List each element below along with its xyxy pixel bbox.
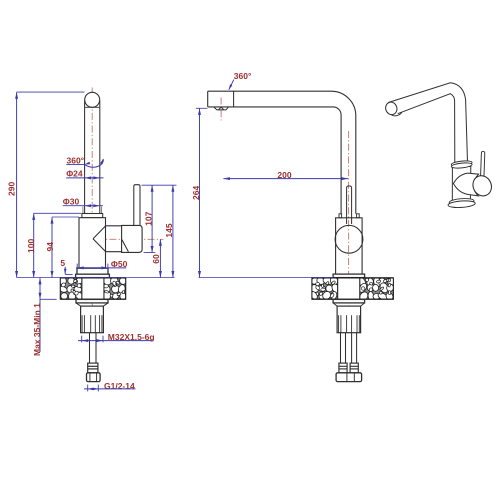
front view: spout top circle (85, 92, 100, 107)
svg-text:60: 60 (151, 254, 161, 264)
front view: handle cylinder silhouette line (122, 240, 128, 252)
side view: washer (333, 299, 365, 303)
3d view: outlet cap (384, 101, 399, 117)
dim Max 35-Min 1 (39, 278, 41, 352)
svg-text:145: 145 (164, 223, 174, 237)
front view: countertop surface lines (60, 277, 125, 279)
front view: riser pipe (84, 101, 86, 214)
front view: handle stick (134, 185, 140, 226)
3d view: boss cap (470, 173, 495, 199)
side view: spout tube outline (208, 91, 356, 214)
side view: collar tabs (339, 214, 342, 218)
side view: handle boss circle (335, 225, 363, 253)
svg-text:Max 35-Min 1: Max 35-Min 1 (32, 303, 42, 356)
front view: body (79, 218, 106, 268)
side view: hex nuts (336, 373, 362, 382)
front view: mounting nut (81, 306, 104, 333)
side view: tip separator (233, 91, 235, 107)
front view: base flange (77, 268, 108, 274)
side view: body (336, 218, 363, 274)
3d view: cone leaf (453, 173, 478, 196)
side view: inner stem (347, 186, 352, 224)
3d view: collar ring (451, 160, 472, 167)
svg-text:94: 94 (45, 242, 55, 252)
dim 145 (172, 185, 174, 277)
front view: hex nut G1/2 (87, 373, 101, 382)
dim 264 (199, 108, 201, 277)
front view: phi30 section edges (82, 207, 84, 214)
dim 60 (159, 239, 161, 277)
front view: collar (82, 214, 103, 218)
svg-text:Φ24: Φ24 (66, 169, 83, 179)
dim 290 (16, 92, 18, 277)
front view: hose crimp sleeve (88, 363, 98, 373)
svg-text:100: 100 (26, 239, 36, 253)
svg-text:200: 200 (277, 170, 291, 180)
side view: mounting nut (337, 306, 361, 333)
front view: neck lines (106, 225, 122, 227)
svg-text:360°: 360° (67, 156, 85, 166)
front view: shank through counter (82, 278, 104, 299)
svg-text:107: 107 (144, 211, 154, 225)
front view: handle cylinder (122, 225, 143, 252)
side view: center line (348, 131, 350, 309)
3d view: handle rod (481, 151, 485, 177)
3d view: body cylinder (452, 167, 471, 201)
svg-text:290: 290 (6, 182, 16, 196)
svg-text:360°: 360° (234, 71, 252, 81)
front view: vertical center line (91, 88, 93, 310)
side view: base flange (333, 274, 365, 278)
front view: supply tube (89, 333, 91, 363)
side view: countertop lines (312, 277, 394, 279)
front view: nut knurl ridges (81, 315, 83, 333)
baseline extension front (17, 277, 175, 279)
svg-text:264: 264 (191, 186, 201, 200)
svg-text:Φ30: Φ30 (63, 197, 80, 207)
dim 200 (223, 178, 348, 180)
side view: shank (338, 278, 360, 299)
front view: mounting washer (76, 299, 108, 303)
side view: supply tubes (340, 333, 342, 363)
3d view: base rings (449, 198, 474, 206)
svg-text:5: 5 (60, 258, 65, 268)
3d view: aerator lip (390, 107, 403, 117)
3d view: spout tube (388, 83, 467, 163)
side view: aerator axis (220, 98, 222, 121)
side view: aerator (214, 107, 229, 110)
front view: washer taper (76, 303, 81, 306)
front view: horizontal center line (84, 238, 164, 240)
front view: base plate (76, 274, 110, 277)
front view: cone to handle (93, 226, 106, 239)
dim 100 (33, 213, 35, 277)
dim 94 (51, 217, 53, 277)
dim 107 (151, 185, 153, 252)
side view: crimp sleeves (339, 363, 347, 373)
